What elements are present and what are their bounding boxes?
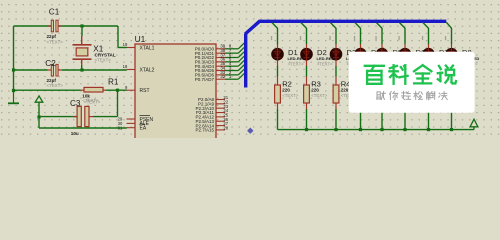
wire R1 to RST pin	[106, 89, 127, 91]
power VCC arrow	[35, 96, 43, 117]
value 22pf (C2)	[47, 78, 57, 83]
svg-text:<TEXT>: <TEXT>	[47, 40, 64, 45]
bus horizontal segment	[259, 20, 447, 23]
wire bus drop D1	[272, 23, 278, 45]
pin stub XTAL2	[127, 69, 136, 71]
pin number 38	[220, 48, 225, 53]
label D1	[288, 48, 298, 57]
svg-text:<TEXT>: <TEXT>	[47, 83, 64, 88]
pin number 33	[220, 70, 225, 75]
value 220 R2	[282, 87, 290, 92]
label X1	[93, 44, 103, 53]
label LED-RED D3	[346, 56, 364, 61]
label <TEXT> C3	[84, 100, 101, 105]
svg-text:<TEXT>: <TEXT>	[84, 100, 101, 105]
net label 7	[229, 48, 232, 53]
crystal X1	[73, 36, 92, 65]
label D3	[347, 48, 357, 57]
wire D6 to R7	[404, 66, 406, 77]
wire D8 to R9	[451, 66, 453, 77]
svg-text:EA: EA	[140, 126, 147, 132]
net label stub 2	[300, 36, 301, 40]
pin number 9	[125, 85, 128, 90]
pin number 39	[220, 44, 225, 49]
net label stub 6	[398, 36, 399, 40]
svg-text:<TEXT>: <TEXT>	[282, 93, 298, 98]
LED D2	[300, 44, 313, 66]
label <TEXT> C1	[47, 40, 64, 45]
pin name EA	[140, 124, 147, 131]
LED D6	[399, 44, 412, 66]
value 220 R7	[410, 87, 418, 92]
label R3	[311, 79, 321, 88]
wire P0.1 to bus	[225, 47, 244, 53]
pin stub P0.5	[216, 70, 225, 72]
net label stub 5	[375, 36, 376, 40]
net label 8	[229, 44, 232, 49]
svg-text:10u: 10u	[71, 131, 79, 136]
pin name P0.6/AD6	[195, 73, 215, 78]
label <TEXT> D7	[439, 61, 455, 66]
pin name RST	[140, 88, 150, 94]
svg-text:D2: D2	[317, 48, 327, 57]
pin number 27	[223, 121, 228, 126]
node junction left vertical / XTAL2 rail	[12, 68, 15, 71]
wire R5 to bottom rail	[360, 109, 362, 130]
wire bus end drop D8	[446, 22, 451, 44]
bus diagonal corner	[245, 21, 259, 34]
label <TEXT> R8	[433, 93, 449, 98]
pin stub P0.4	[216, 65, 225, 67]
label LED-RED D8	[462, 56, 480, 61]
label LED-RED D7	[439, 56, 457, 61]
svg-text:<TEXT>: <TEXT>	[288, 61, 304, 66]
label C3	[70, 99, 81, 108]
net label 5	[229, 57, 232, 62]
wire bottom rail	[278, 129, 475, 131]
value 220 R9	[456, 87, 464, 92]
svg-text:RST: RST	[140, 88, 150, 94]
label <TEXT> D6	[416, 61, 432, 66]
power arrow bottom right	[470, 119, 478, 129]
svg-text:220: 220	[282, 87, 290, 92]
pin name P0.1/AD1	[195, 51, 215, 56]
node junction bottom rail	[427, 128, 430, 131]
net label 2	[229, 70, 232, 75]
pin number 25	[223, 112, 228, 117]
pin stub ALE	[127, 122, 136, 124]
value 220 R3	[311, 87, 319, 92]
svg-text:XTAL2: XTAL2	[140, 67, 155, 73]
pin name P2.7/A15	[195, 128, 214, 133]
wire R9 to bottom rail	[451, 109, 453, 130]
pin number 30	[118, 121, 123, 126]
pin number 34	[220, 65, 225, 70]
pin name P0.5/AD5	[195, 68, 215, 73]
LED D1	[271, 44, 284, 66]
pin name P0.0/AD0	[195, 47, 215, 52]
label R2	[282, 79, 292, 88]
pin number 31	[118, 125, 123, 130]
pin stub P0.6	[216, 74, 225, 76]
wire R7 to bottom rail	[404, 109, 406, 130]
pin stub RST	[127, 89, 136, 91]
wire P0.4 to bus	[225, 60, 244, 66]
pin number 21	[223, 95, 228, 100]
capacitor C1	[47, 20, 62, 32]
LED D5	[376, 44, 389, 66]
pin stub P0.0	[216, 48, 225, 50]
node junction bottom rail	[359, 128, 362, 131]
node junction bottom rail	[450, 128, 453, 131]
label LED-RED D1	[288, 56, 306, 61]
label CRYSTAL	[95, 53, 116, 58]
value 220 R6	[387, 87, 395, 92]
label R8	[433, 79, 443, 88]
wire D2 to R3	[306, 66, 308, 77]
pin name PSEN	[140, 115, 154, 122]
svg-text:220: 220	[311, 87, 319, 92]
pin stub P0.1	[216, 52, 225, 54]
wire P0.3 to bus	[225, 56, 244, 62]
pin number 19	[123, 42, 128, 47]
pin stub P0.7	[216, 78, 225, 80]
pin number 37	[220, 52, 225, 57]
wire XTAL1 top rail	[14, 25, 119, 27]
wire P0.6 to bus	[225, 69, 244, 75]
pin name P2.1/A9	[198, 102, 215, 107]
wire bus drop D6	[400, 23, 406, 45]
node junction top rail / X1 top	[80, 24, 83, 27]
net label stub 4	[354, 36, 355, 40]
svg-text:<TEXT>: <TEXT>	[317, 61, 333, 66]
wire P0.0 to bus	[225, 43, 244, 49]
resistor R3	[304, 77, 310, 110]
svg-text:22pf: 22pf	[47, 78, 57, 83]
value 10k	[82, 93, 90, 98]
watermark text big 百科全说	[365, 65, 456, 84]
pin number 23	[223, 104, 228, 109]
watermark box 百科全说	[349, 52, 475, 113]
wire X1 bottom to XTAL2 rail	[81, 65, 83, 70]
resistor R6	[379, 77, 385, 110]
label C1	[49, 7, 60, 16]
LED D8	[445, 44, 458, 66]
wire D1 to R2	[277, 66, 279, 77]
wire RST junction down to C3	[93, 90, 118, 116]
node junction X1 / XTAL2 rail	[80, 68, 83, 71]
svg-text:CRYSTAL: CRYSTAL	[95, 53, 116, 58]
LED D3	[330, 44, 343, 66]
node junction bottom rail	[403, 128, 406, 131]
pin stub P2.4	[216, 116, 225, 118]
node junction bottom rail	[334, 128, 337, 131]
watermark text small 助你轻松解决	[377, 91, 448, 99]
wire R8 to bottom rail	[428, 109, 430, 130]
label <TEXT> R4	[341, 93, 357, 98]
grid background	[1, 4, 499, 135]
label U1	[135, 34, 146, 44]
bus vertical segment	[244, 34, 247, 88]
resistor R5	[358, 77, 364, 110]
label R9	[456, 79, 466, 88]
pin stub XTAL1	[127, 47, 136, 49]
capacitor C2	[48, 64, 63, 76]
net label stub 1	[271, 36, 272, 40]
wire top rail left vertical	[13, 26, 15, 91]
node junction bottom rail	[380, 128, 383, 131]
label <TEXT> D8	[462, 61, 478, 66]
svg-text:C2: C2	[45, 59, 56, 68]
pin name P2.4/A12	[195, 115, 214, 120]
svg-text:32: 32	[220, 74, 225, 79]
label <TEXT> R3	[311, 93, 327, 98]
pin number 18	[123, 64, 128, 69]
node junction left vertical / ground rail	[12, 89, 15, 92]
label C2	[45, 59, 56, 68]
value 10u	[71, 131, 79, 136]
label <TEXT> D4	[371, 61, 387, 66]
pin stub EA	[127, 127, 136, 129]
wire P0.7 to bus	[225, 73, 244, 79]
pin name P2.0/A8	[198, 97, 215, 102]
resistor R1	[81, 87, 107, 92]
net label 6	[229, 52, 232, 57]
pin stub P0.3	[216, 61, 225, 63]
svg-text:D1: D1	[288, 48, 298, 57]
net label stub 7	[422, 36, 423, 40]
svg-text:<TEXT>: <TEXT>	[95, 58, 112, 63]
svg-text:X1: X1	[93, 44, 103, 53]
label <TEXT> D1	[288, 61, 304, 66]
net label 3	[229, 65, 232, 70]
pin name P0.3/AD3	[195, 60, 215, 65]
svg-text:28: 28	[223, 126, 228, 131]
label R6	[387, 79, 397, 88]
label D7	[439, 48, 449, 57]
wire D3 to R4	[335, 66, 337, 77]
resistor R7	[402, 77, 408, 110]
label <TEXT> D3	[347, 61, 363, 66]
label <TEXT> R9	[456, 93, 472, 98]
label <TEXT> R2	[282, 93, 298, 98]
pin stub P2.2	[216, 107, 225, 109]
pin name P2.5/A13	[195, 119, 214, 124]
wire R6 to bottom rail	[381, 109, 383, 130]
pin stub P2.1	[216, 103, 225, 105]
pin number 22	[223, 99, 228, 104]
capacitor C3	[73, 106, 93, 126]
wire D5 to R6	[381, 66, 383, 77]
wire VCC to C3 left	[39, 116, 77, 118]
pin stub P2.0	[216, 99, 225, 101]
svg-text:C3: C3	[70, 99, 81, 108]
node junction VCC / C3 / EA	[37, 115, 40, 118]
svg-text:P0.7/AD7: P0.7/AD7	[195, 77, 215, 82]
label <TEXT> C2	[47, 83, 64, 88]
net label stub 8	[445, 36, 446, 40]
wire R4 to bottom rail	[335, 109, 337, 130]
label D8	[462, 48, 472, 57]
label R1	[108, 77, 119, 86]
resistor R2	[275, 77, 281, 110]
net label 1	[229, 74, 232, 79]
pin name P0.7/AD7	[195, 77, 215, 82]
wire bus drop D3	[331, 23, 337, 45]
pin name P2.3/A11	[196, 110, 215, 115]
wire P0.2 to bus	[225, 52, 244, 58]
label <TEXT> R5	[365, 93, 381, 98]
label LED-RED D2	[317, 56, 335, 61]
wire R3 to bottom rail	[306, 109, 308, 130]
wire D7 to R8	[428, 66, 430, 77]
label LED-RED D5	[392, 56, 410, 61]
label R7	[410, 79, 420, 88]
label R5	[365, 79, 375, 88]
pin stub P2.7	[216, 129, 225, 131]
wire P0.5 to bus	[225, 65, 244, 71]
label <TEXT> D5	[393, 61, 409, 66]
pin name P2.6/A14	[195, 123, 214, 128]
pin number 36	[220, 57, 225, 62]
LED D7	[422, 44, 435, 66]
label D5	[393, 48, 403, 57]
svg-text:22pf: 22pf	[47, 34, 57, 39]
pin stub PSEN	[127, 118, 136, 120]
value 22pf (C1)	[47, 34, 57, 39]
wire ground rail to R1	[14, 89, 81, 91]
pin name P2.2/A10	[195, 106, 214, 111]
pin number 24	[223, 108, 228, 113]
value 220 R8	[433, 87, 441, 92]
wire bus drop D5	[377, 23, 383, 45]
resistor R9	[449, 77, 455, 110]
node junction bottom rail	[305, 128, 308, 131]
svg-text:<TEXT>: <TEXT>	[311, 93, 327, 98]
pin stub P0.2	[216, 56, 225, 58]
svg-text:18: 18	[123, 64, 128, 69]
wire XTAL2 rail	[14, 69, 127, 71]
value 220 R4	[341, 87, 349, 92]
svg-text:R3: R3	[311, 79, 321, 88]
wire bus drop D7	[423, 23, 429, 45]
pin name P0.2/AD2	[195, 55, 215, 60]
svg-text:C1: C1	[49, 7, 60, 16]
label LED-RED D6	[415, 56, 433, 61]
wire X1 top stub	[81, 26, 83, 36]
label <TEXT> D2	[317, 61, 333, 66]
pin number 32	[220, 74, 225, 79]
label <TEXT> R1	[82, 98, 99, 103]
resistor R4	[333, 77, 339, 110]
pin name XTAL2	[140, 67, 155, 73]
wire D4 to R5	[360, 66, 362, 77]
svg-text:19: 19	[123, 42, 128, 47]
pin number 28	[223, 126, 228, 131]
label D4	[371, 48, 381, 57]
svg-text:XTAL1: XTAL1	[140, 45, 155, 51]
label D6	[416, 48, 426, 57]
resistor R8	[426, 77, 432, 110]
node junction RST / C3 branch	[116, 89, 119, 92]
wire VCC down to EA	[39, 117, 127, 128]
pin stub P2.6	[216, 125, 225, 127]
label D2	[317, 48, 327, 57]
op-amp U1 body (8051 MCU)	[135, 44, 216, 139]
label <TEXT> X1	[95, 58, 112, 63]
svg-text:220: 220	[341, 87, 349, 92]
svg-text:P2.7/A15: P2.7/A15	[195, 128, 214, 133]
LED D4	[354, 44, 367, 66]
pin name P0.4/AD4	[195, 64, 215, 69]
pin name XTAL1	[140, 45, 155, 51]
net label 4	[229, 61, 232, 66]
label <TEXT> R7	[410, 93, 426, 98]
pin name ALE	[140, 121, 150, 127]
label R4	[341, 79, 351, 88]
wire bus drop D2	[301, 23, 307, 45]
label <TEXT> R6	[387, 93, 403, 98]
svg-text:R2: R2	[282, 79, 292, 88]
value 220 R5	[365, 87, 373, 92]
wire XTAL1 corner	[118, 26, 127, 48]
node origin marker	[247, 128, 253, 134]
svg-text:R1: R1	[108, 77, 119, 86]
pin stub P2.3	[216, 112, 225, 114]
pin number 26	[223, 117, 228, 122]
pin number 29	[118, 117, 123, 122]
net label stub 3	[329, 36, 330, 40]
ground	[8, 91, 19, 104]
pin number 35	[220, 61, 225, 66]
pin stub P2.5	[216, 120, 225, 122]
wire bus drop D4	[355, 23, 361, 45]
svg-text:31: 31	[118, 125, 123, 130]
wire R2 to bottom rail	[277, 109, 279, 130]
label LED-RED D4	[371, 56, 389, 61]
svg-text:U1: U1	[135, 34, 146, 44]
